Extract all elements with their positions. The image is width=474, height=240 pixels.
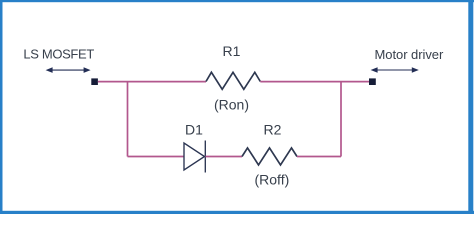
svg-text:R1: R1 xyxy=(223,43,241,59)
arrow Motor driver xyxy=(371,67,419,73)
wire bottom rail left segment xyxy=(128,156,185,158)
label R1 xyxy=(223,43,241,59)
terminal node (Motor driver side) xyxy=(369,78,376,85)
wire bottom rail right segment xyxy=(297,156,341,158)
node label LS MOSFET xyxy=(23,46,94,61)
svg-text:LS MOSFET: LS MOSFET xyxy=(23,46,94,61)
arrow LS MOSFET xyxy=(46,67,91,73)
node label Motor driver xyxy=(375,47,444,62)
value label (Ron) xyxy=(214,97,249,113)
label D1 xyxy=(185,122,203,138)
resistor R1 xyxy=(206,72,260,89)
svg-text:R2: R2 xyxy=(264,122,282,138)
value label (Roff) xyxy=(255,172,290,188)
terminal node (LS MOSFET side) xyxy=(91,78,98,85)
diode D1 xyxy=(184,141,205,173)
label R2 xyxy=(264,122,282,138)
svg-text:(Roff): (Roff) xyxy=(255,172,290,188)
svg-text:(Ron): (Ron) xyxy=(214,97,249,113)
svg-text:D1: D1 xyxy=(185,122,203,138)
wire top rail right segment xyxy=(260,81,369,83)
wire left branch vertical xyxy=(127,82,129,157)
resistor R2 xyxy=(242,148,297,165)
svg-text:Motor driver: Motor driver xyxy=(375,47,444,62)
wire bottom rail middle segment xyxy=(206,156,243,158)
wire right branch vertical xyxy=(340,82,342,157)
wire top rail left segment xyxy=(98,81,206,83)
